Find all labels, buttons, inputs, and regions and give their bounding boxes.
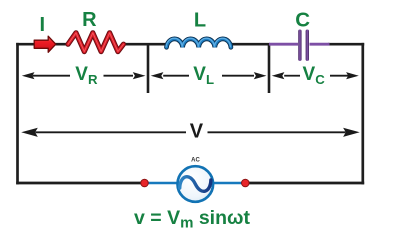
wire: bottom wire left black segment [16, 182, 142, 185]
capacitor C plate 1 [298, 30, 301, 61]
svg-text:V: V [190, 120, 204, 142]
AC source circle [178, 166, 214, 202]
capacitor C leads (purple) [269, 43, 298, 46]
wire: blue lead right of source [213, 182, 246, 185]
svg-text:I: I [40, 14, 46, 36]
VL arrow (double headed) [151, 72, 267, 79]
wire: top wire left segment [16, 43, 68, 46]
wire: blue lead left of source [144, 182, 178, 185]
current arrow I (red block arrow) [34, 36, 56, 52]
terminal dot left [141, 179, 149, 187]
VC arrow (double headed) [272, 72, 359, 79]
svg-text:C: C [295, 9, 310, 32]
V arrow (full width double headed) [21, 128, 360, 137]
resistor R (zigzag) [68, 33, 124, 52]
svg-text:AC: AC [191, 158, 200, 164]
VR arrow (double headed) [22, 72, 146, 79]
wire: top wire between inductor and node B [230, 43, 270, 46]
terminal dot right [242, 179, 250, 187]
wire: top wire right black segment [328, 43, 364, 46]
inductor L (4 humps) [166, 38, 231, 47]
wire: right vertical wire [361, 43, 364, 185]
svg-text:L: L [194, 9, 206, 31]
AC source sine wave [180, 177, 211, 192]
wire: bottom wire right black segment [247, 182, 364, 185]
wire: top wire between resistor and inductor [123, 43, 167, 46]
capacitor C plate 2 [306, 30, 309, 61]
node A junction tick between R and L [147, 44, 150, 93]
node B junction tick between L and C [268, 44, 271, 93]
wire: left vertical wire [16, 43, 19, 185]
svg-text:R: R [82, 9, 97, 31]
